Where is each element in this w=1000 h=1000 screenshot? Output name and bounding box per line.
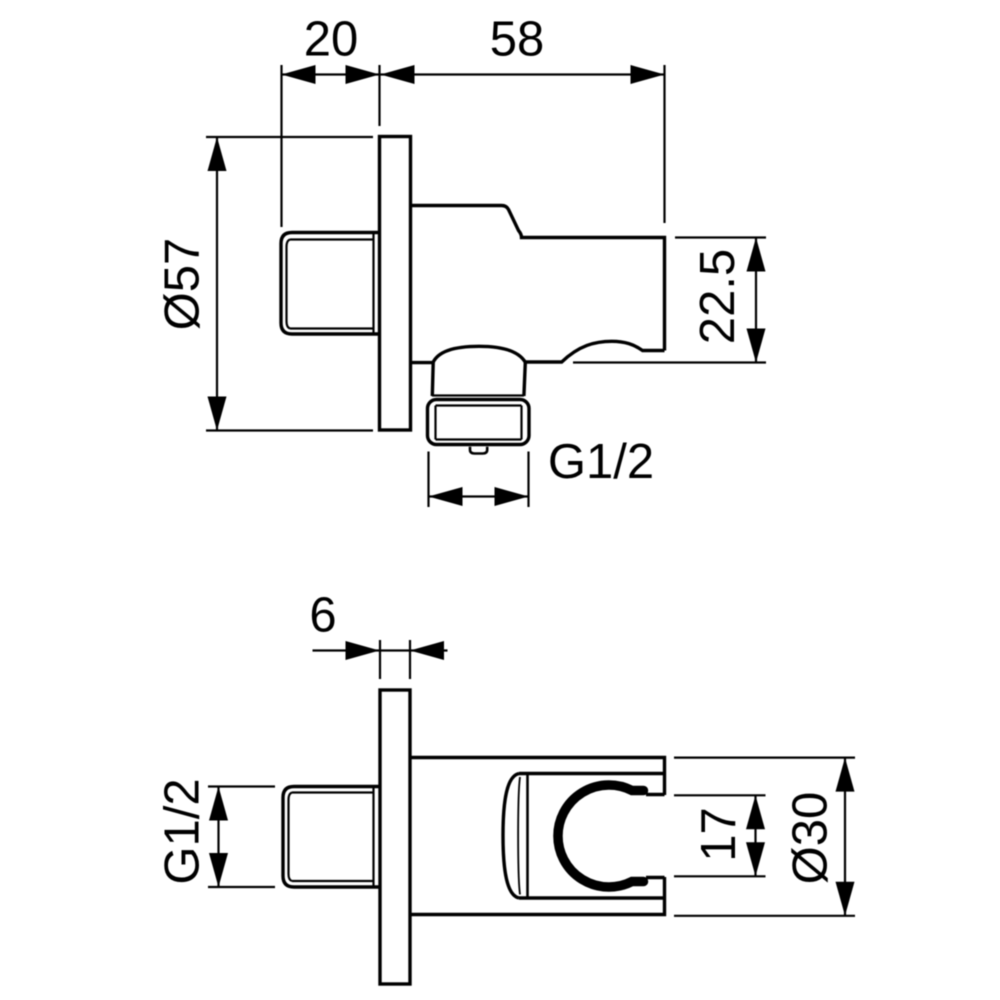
arrow down D30 xyxy=(836,882,855,916)
arrow up D30 xyxy=(836,758,855,792)
arrow down G1/2 bottom view xyxy=(209,853,228,887)
dimension D57 line (top view) xyxy=(216,137,218,431)
extension line body-bottom-right xyxy=(573,361,766,363)
svg-text:58: 58 xyxy=(490,13,545,67)
extension line nut-left xyxy=(427,452,429,508)
arrow right of 58 xyxy=(631,65,665,84)
svg-text:Ø30: Ø30 xyxy=(784,792,838,885)
extension line plate-bottom xyxy=(206,429,373,431)
svg-text:G1/2: G1/2 xyxy=(548,435,654,489)
male thread inner detail (bottom view) xyxy=(289,788,374,887)
svg-text:22.5: 22.5 xyxy=(691,249,745,344)
cup top edge (bottom view) xyxy=(519,772,665,775)
outlet nipple (top view) xyxy=(470,447,487,454)
wall plate (top view) xyxy=(380,137,411,431)
notch top line (bottom view) xyxy=(646,793,665,796)
arrow up D57 xyxy=(208,137,227,171)
extension line block-bottom (bottom view) xyxy=(674,915,855,917)
cup left bulge (bottom view) xyxy=(503,774,519,899)
dimension 22.5 line (top view) xyxy=(755,238,757,363)
arrow right G1/2 top view xyxy=(495,487,529,506)
arrow pointing left at 6 xyxy=(410,641,444,660)
dimension 6 line (bottom view) xyxy=(313,649,448,651)
male thread inner detail (top view) xyxy=(287,234,374,334)
arrow down 17 xyxy=(746,842,765,876)
extension line block-top (bottom view) xyxy=(674,756,855,758)
cradle bump bottom edge (top view) xyxy=(526,341,665,362)
dimension 20/58 line (top view) xyxy=(282,73,665,75)
male thread G1/2 outer (bottom view) xyxy=(283,787,379,888)
bottom edge near plate (top view) xyxy=(411,361,434,364)
svg-text:G1/2: G1/2 xyxy=(156,778,210,884)
dimension G1/2 line (bottom view) xyxy=(217,787,219,888)
holder C-ring (bottom view) xyxy=(558,785,644,887)
arrow right of 20 xyxy=(346,65,380,84)
notch bottom line (bottom view) xyxy=(646,876,665,879)
extension line plate-left (bottom view) xyxy=(379,640,381,679)
svg-text:Ø57: Ø57 xyxy=(156,238,210,331)
dimension D30 line (bottom view) xyxy=(844,758,846,916)
arrow up 17 xyxy=(746,795,765,829)
arrow down D57 xyxy=(208,397,227,431)
arrow left of 58 xyxy=(381,65,415,84)
extension line thread-top (bottom view) xyxy=(208,785,275,787)
svg-text:6: 6 xyxy=(309,589,336,643)
arrow up G1/2 bottom view xyxy=(209,787,228,821)
holder block outline (bottom view) xyxy=(410,758,665,915)
extension line notch-top xyxy=(674,794,766,796)
extension line plate-right (bottom view) xyxy=(409,640,411,679)
extension line notch-bottom xyxy=(674,875,766,877)
outlet nut inner detail (top view) xyxy=(432,396,524,440)
extension line thread-left xyxy=(280,65,282,227)
dimension 17 line (bottom view) xyxy=(754,795,756,876)
arrow left G1/2 top view xyxy=(429,487,463,506)
arrow left of 20 xyxy=(282,65,316,84)
outlet neck sides (top view) xyxy=(432,363,525,396)
cup inner arc (bottom view) xyxy=(518,777,520,895)
extension line nut-right xyxy=(527,452,529,508)
cup bottom edge (bottom view) xyxy=(519,896,665,899)
dimension G1/2 line (top view) xyxy=(429,495,529,497)
extension line plate-top xyxy=(206,136,373,138)
extension line body-top-right xyxy=(675,236,766,238)
outlet dome (top view) xyxy=(433,346,526,362)
arrow down 22.5 xyxy=(747,329,766,363)
cup face line (bottom view) xyxy=(526,775,529,898)
body outline (top view) xyxy=(411,206,665,351)
wall plate (bottom view) xyxy=(380,690,410,984)
outlet nut outer (top view) xyxy=(428,400,530,445)
arrow pointing right at 6 xyxy=(346,641,380,660)
arrow up 22.5 xyxy=(747,238,766,272)
svg-text:20: 20 xyxy=(304,13,359,67)
extension line plate-left xyxy=(378,65,380,126)
male thread G1/2 outer (top view) xyxy=(281,233,379,335)
extension line thread-bottom (bottom view) xyxy=(208,886,275,888)
svg-text:17: 17 xyxy=(692,807,746,862)
extension line body-right xyxy=(663,65,665,223)
